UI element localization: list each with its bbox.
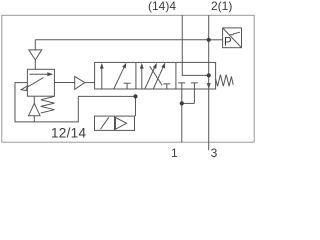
regulator spring	[41, 96, 55, 113]
junction pilot valve	[133, 94, 137, 98]
label 3	[211, 146, 218, 160]
svg-text:12/14: 12/14	[51, 126, 86, 141]
valve position divider 2	[175, 62, 177, 89]
chamber2 throttle stroke	[150, 66, 163, 85]
chamber1 vertical flow arrow	[101, 66, 103, 89]
chamber1 blocked port	[124, 83, 131, 89]
junction chamber3	[207, 73, 211, 77]
chamber1 diagonal flow arrow	[114, 66, 125, 89]
svg-text:3: 3	[211, 146, 218, 158]
wire port 2(1) vertical through valve to port 3 below frame	[208, 15, 210, 150]
check valve stem	[33, 96, 35, 103]
main valve body	[95, 62, 216, 89]
regulator adjustment arrow	[27, 78, 44, 88]
wire valve to pilot valve	[135, 96, 137, 116]
wire regulator output	[54, 82, 74, 84]
solenoid stroke	[101, 117, 109, 129]
chamber3 blocked port 1 stem	[178, 83, 185, 104]
wire check valve to pilot rail	[33, 116, 35, 122]
pilot actuation triangle	[116, 118, 127, 130]
chamber3 exhaust arrow to port 3	[207, 83, 211, 89]
wire triangle to regulator top	[34, 60, 36, 69]
chamber2 blocked port	[163, 84, 170, 89]
enclosure frame	[2, 15, 254, 142]
svg-text:2(1): 2(1)	[211, 0, 232, 13]
label 1	[171, 146, 178, 160]
label (14)4	[148, 0, 176, 13]
wire pilot supply 12/14 rail	[15, 83, 136, 122]
label 2(1)	[211, 0, 232, 13]
valve position divider 1	[135, 62, 137, 89]
junction sensing/port2	[207, 38, 211, 42]
wire amplifier to valve pilot	[85, 82, 95, 84]
pilot valve divider	[114, 116, 116, 130]
vent flow triangle	[29, 50, 42, 60]
pressure switch P	[224, 37, 232, 49]
pressure regulator body	[27, 69, 54, 96]
svg-text:P: P	[224, 37, 232, 49]
wire pilot branch to port 1	[182, 102, 195, 104]
label 12/14	[51, 126, 86, 141]
pressure switch contact	[230, 32, 240, 35]
svg-text:(14)4: (14)4	[148, 0, 176, 13]
wire to pressure switch	[209, 39, 223, 41]
regulator flow arrow	[30, 73, 49, 75]
chamber3 blocked pilot stem	[191, 83, 198, 104]
valve return spring	[216, 75, 234, 87]
pilot solenoid valve body	[95, 116, 135, 130]
svg-text:1: 1	[171, 146, 178, 158]
junction port 1	[180, 101, 184, 105]
pressure switch box	[223, 28, 242, 48]
pressure switch diagonal	[223, 28, 242, 48]
wire port 1 to frame bottom	[181, 103, 183, 142]
chamber2 vertical flow arrow	[141, 66, 143, 89]
wire port (14)4 down into valve rest chamber	[182, 15, 208, 75]
pilot amplifier	[75, 76, 85, 89]
wire regulator sensing line	[35, 39, 208, 41]
chamber2 throttled flow arrow b	[153, 65, 164, 89]
chamber2 throttled flow arrow a	[145, 66, 156, 90]
check valve	[29, 103, 41, 115]
wire vent drop to triangle	[34, 40, 36, 50]
